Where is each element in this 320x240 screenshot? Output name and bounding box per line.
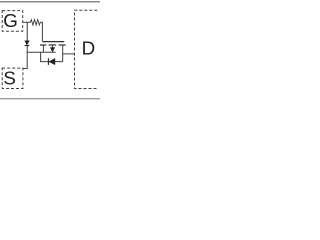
svg-text:G: G [3, 10, 18, 31]
wire source rail [27, 51, 56, 53]
body diode loop wires [41, 52, 63, 61]
wire zener cathode down to S [23, 46, 27, 69]
MOSFET gate bar [42, 41, 64, 43]
wire resistor to MOSFET gate [40, 22, 42, 41]
MOSFET source stem [42, 45, 44, 52]
svg-text:D: D [82, 38, 96, 59]
resistor (gate series) [30, 20, 40, 25]
zener diode gate-source [25, 41, 30, 46]
wire G to resistor [23, 21, 31, 23]
MOSFET channel segments [40, 44, 66, 46]
terminal D [75, 10, 98, 88]
terminal S [2, 67, 23, 88]
terminal G [2, 10, 23, 31]
wire drain to D terminal [63, 53, 75, 55]
body diode [48, 58, 55, 65]
MOSFET drain stem [62, 45, 64, 62]
wire gate-source branch (node at G wire) [26, 22, 28, 41]
svg-text:S: S [3, 67, 16, 88]
MOSFET body arrow [50, 45, 55, 52]
